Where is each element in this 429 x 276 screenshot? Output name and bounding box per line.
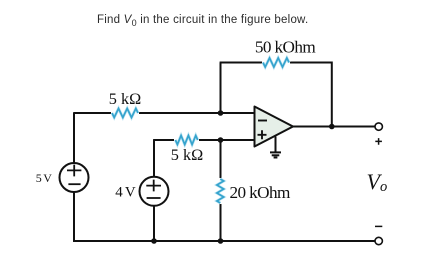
node: bottom rail 20kOhm junction — [218, 238, 224, 244]
source V2 4V (circle with plus minus) — [140, 177, 169, 206]
label 5 kOhm (middle resistor) — [171, 145, 203, 164]
label - at bottom terminal — [375, 225, 382, 227]
wire: feedback top rail — [220, 62, 332, 64]
resistor 50 kOhm (feedback) — [262, 56, 290, 68]
label 5 kOhm (input resistor) — [109, 89, 141, 108]
resistor 20 kOhm (vertical) — [215, 178, 226, 204]
wire: left vertical from top rail down to 5V source top — [73, 112, 75, 163]
wire: bottom rail — [73, 240, 375, 242]
svg-text:5 kΩ: 5 kΩ — [109, 89, 141, 108]
label + at output terminal — [375, 138, 382, 145]
svg-text:20 kOhm: 20 kOhm — [230, 183, 291, 202]
resistor 5 kOhm (middle rail) — [174, 134, 199, 146]
svg-text:5V: 5V — [36, 171, 53, 185]
label 4 V — [115, 184, 136, 200]
terminal: output + (open circle) — [375, 123, 382, 130]
resistor 5 kOhm (input, on top rail) — [111, 107, 139, 119]
node: bottom rail 4V junction — [151, 238, 157, 244]
wire: feedback left vertical from inverting node up to feedback top rail — [220, 63, 222, 114]
node: output junction — [329, 124, 335, 130]
op-amp U1 (triangle body) — [255, 107, 294, 147]
wire: feedback right vertical down to output node — [331, 62, 333, 127]
label Vo (output voltage) — [367, 169, 388, 195]
svg-text:Find V0 in the circuit in the: Find V0 in the circuit in the figure bel… — [97, 14, 308, 28]
node: inverting input junction — [218, 110, 224, 116]
label 5 V — [36, 171, 53, 185]
wire: vertical from middle rail down to 4V source top — [153, 139, 155, 177]
source V1 5V (circle with plus minus) — [60, 163, 89, 192]
wire: vertical from 20 kOhm resistor down to bottom rail — [220, 203, 222, 242]
svg-text:5 kΩ: 5 kΩ — [171, 145, 203, 164]
label 20 kOhm — [230, 183, 291, 202]
wire: output rail from op-amp to + terminal — [293, 126, 375, 128]
wire: vertical from 4V source bottom to bottom rail — [153, 206, 155, 241]
wire: top rail from left corner to op-amp inverting input — [74, 112, 255, 114]
svg-text:4V: 4V — [115, 184, 136, 200]
op-amp U1 noninverting input marker + — [258, 130, 267, 139]
wire: left vertical from 5V source bottom to bottom rail — [73, 192, 75, 242]
ground — [270, 137, 281, 158]
terminal: output - (open circle) — [375, 237, 382, 244]
op-amp U1 inverting input marker - — [258, 120, 267, 122]
wire: middle rail from 4V source to op-amp noninverting input — [154, 139, 255, 141]
label 50 kOhm (feedback resistor) — [255, 38, 316, 57]
svg-text:50 kOhm: 50 kOhm — [255, 38, 316, 57]
node: noninverting input junction — [218, 137, 224, 143]
wire: vertical from noninverting node down to 20 kOhm resistor — [220, 140, 222, 180]
